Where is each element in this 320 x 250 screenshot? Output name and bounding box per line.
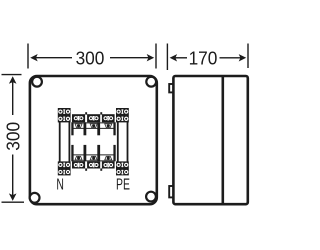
svg-text:300: 300 — [76, 48, 105, 69]
svg-text:300: 300 — [3, 122, 24, 151]
svg-text:N: N — [56, 175, 64, 193]
svg-text:170: 170 — [189, 48, 218, 69]
svg-text:PE: PE — [116, 175, 130, 193]
